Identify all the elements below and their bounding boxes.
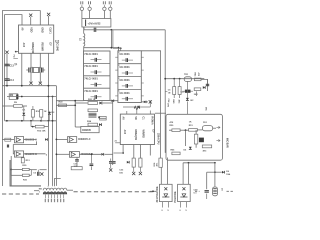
resistor RN1 <box>9 94 18 100</box>
wire <box>48 16 50 25</box>
wire <box>155 112 166 114</box>
diode D5 <box>137 106 139 109</box>
wire <box>34 190 39 192</box>
wire <box>133 145 135 159</box>
svg-text:C1: C1 <box>142 116 145 120</box>
capacitor C36 <box>199 138 204 143</box>
wire <box>2 139 14 141</box>
wire <box>30 121 32 127</box>
wire <box>150 190 156 192</box>
voltage regulator box <box>82 19 111 28</box>
wire <box>13 141 36 153</box>
wire <box>74 101 76 127</box>
ground <box>39 82 42 85</box>
diode D9 <box>45 138 47 141</box>
wire <box>2 105 13 107</box>
resistor R16 <box>159 158 162 167</box>
resistor R41 <box>178 87 181 95</box>
wire <box>123 106 137 108</box>
capacitor C41 <box>205 190 209 192</box>
diode D6 <box>127 161 129 164</box>
capacitor C31 <box>112 161 115 163</box>
diode D2 <box>48 112 51 114</box>
resistor R10 <box>31 110 34 118</box>
wire <box>10 156 12 186</box>
capacitor C22 <box>94 83 96 87</box>
wire <box>31 169 37 171</box>
svg-text:21: 21 <box>115 141 118 143</box>
wire <box>56 104 75 106</box>
ground <box>139 172 142 175</box>
svg-text:R55: R55 <box>171 149 176 151</box>
svg-text:R20: R20 <box>59 102 64 104</box>
resistor R44 <box>194 88 201 91</box>
wires in box <box>169 129 172 131</box>
svg-text:BC: BC <box>191 100 195 102</box>
wire <box>122 145 124 154</box>
capacitor C24 <box>125 58 127 62</box>
svg-text:5: 5 <box>46 154 48 156</box>
wire <box>39 72 41 82</box>
svg-text:1N: 1N <box>168 92 171 94</box>
wire <box>47 185 49 188</box>
wire <box>2 85 56 87</box>
svg-text:10N: 10N <box>166 103 168 107</box>
svg-text:C13: C13 <box>9 64 14 67</box>
svg-text:470: 470 <box>197 73 200 77</box>
svg-text:3K1 POLVCDE: 3K1 POLVCDE <box>157 186 159 202</box>
wire <box>83 27 85 30</box>
logic gate IC5A <box>14 137 23 143</box>
diode D8 <box>99 123 101 126</box>
crystal X1 <box>34 67 39 72</box>
resistor R30 <box>22 168 29 170</box>
wire <box>75 102 87 104</box>
svg-text:R40: R40 <box>172 100 175 105</box>
ground <box>29 82 32 85</box>
resistor R14 <box>132 158 135 167</box>
svg-text:4069/IC5-C: 4069/IC5-C <box>78 138 91 141</box>
node C <box>15 51 17 53</box>
diode D12 <box>186 98 189 101</box>
svg-text:74LC/-0001: 74LC/-0001 <box>84 89 98 93</box>
svg-text:Z80ACPU: Z80ACPU <box>156 133 159 145</box>
svg-text:1N4: 1N4 <box>226 173 231 176</box>
svg-text:WR/RD: WR/RD <box>142 130 145 139</box>
capacitor C13 <box>4 63 9 65</box>
capacitor C30 <box>109 161 112 163</box>
svg-text:D1: D1 <box>23 110 27 112</box>
node G <box>40 172 43 175</box>
resistor R11 <box>40 110 43 118</box>
svg-text:R9: R9 <box>14 102 18 104</box>
dashed line mid <box>74 191 153 193</box>
resistor R31 <box>22 174 29 176</box>
svg-text:R50: R50 <box>170 125 175 127</box>
svg-text:ROM/A: ROM/A <box>150 116 153 125</box>
wire <box>13 57 18 59</box>
wire <box>126 111 128 114</box>
wire <box>214 163 216 187</box>
wire <box>55 86 57 186</box>
connector J3 <box>103 7 106 10</box>
svg-text:1K: 1K <box>44 111 47 113</box>
svg-text:C30: C30 <box>181 92 186 94</box>
wire <box>201 79 208 91</box>
logic IC stack right <box>118 51 141 103</box>
wire <box>149 145 151 156</box>
wire <box>2 11 40 186</box>
wire <box>99 117 106 119</box>
wire <box>21 53 23 85</box>
capacitor C2 <box>40 68 42 73</box>
svg-text:R21 1K: R21 1K <box>88 99 96 101</box>
transistor Q2 <box>184 77 191 82</box>
svg-text:ZD1: ZD1 <box>203 122 208 124</box>
svg-text:D9: D9 <box>226 171 230 173</box>
svg-text:A15: A15 <box>22 43 25 48</box>
node D <box>5 51 8 54</box>
svg-text:D7: D7 <box>49 43 52 47</box>
svg-text:A0: A0 <box>21 27 24 31</box>
osc caps <box>5 138 11 141</box>
wire <box>30 53 32 68</box>
logic gate IC5B <box>14 151 23 157</box>
svg-text:A0: A0 <box>122 116 125 120</box>
wire <box>103 102 113 104</box>
ground <box>132 172 135 175</box>
resistor R13 <box>21 158 24 163</box>
svg-text:4069UB: 4069UB <box>82 129 91 132</box>
dashed line left <box>2 193 39 195</box>
capacitor C35 <box>206 83 209 85</box>
svg-text:3K3: 3K3 <box>177 100 179 105</box>
wire <box>115 142 120 144</box>
wire <box>39 53 41 68</box>
resistor R17 <box>71 167 82 170</box>
svg-text:5: 5 <box>168 210 170 212</box>
svg-text:74LC/-0001: 74LC/-0001 <box>84 52 98 56</box>
connector J2 <box>88 7 91 10</box>
svg-text:POLVCDE: POLVCDE <box>175 191 177 203</box>
svg-text:5: 5 <box>186 210 188 212</box>
svg-text:1C/-0001: 1C/-0001 <box>119 65 130 69</box>
wire <box>5 15 22 121</box>
node A <box>29 14 32 17</box>
transistor Q1 <box>100 116 107 120</box>
svg-text:C14: C14 <box>9 79 14 82</box>
wire <box>141 51 160 158</box>
wire <box>56 138 67 140</box>
optocoupler U4 <box>178 184 191 201</box>
svg-text:1C/-0001: 1C/-0001 <box>119 78 130 82</box>
wire <box>52 97 54 186</box>
svg-text:C33: C33 <box>119 170 124 172</box>
wire <box>140 145 142 159</box>
capacitor C9 <box>37 172 39 176</box>
svg-text:LS: LS <box>221 188 223 191</box>
capacitor C27 <box>125 97 127 101</box>
arrows EAR <box>216 126 220 128</box>
svg-text:D2: D2 <box>52 112 56 114</box>
wire <box>112 30 114 49</box>
wire <box>24 139 37 141</box>
wire <box>188 163 190 185</box>
wire <box>47 53 49 186</box>
resistor R15 <box>139 158 142 167</box>
svg-text:4069/IC5-B: 4069/IC5-B <box>24 153 37 156</box>
svg-text:2C184E: 2C184E <box>56 42 59 51</box>
capacitor C21 <box>94 70 96 74</box>
wire <box>149 111 151 115</box>
ground <box>109 168 112 171</box>
diode D3 <box>112 99 114 102</box>
resistor R54 <box>172 152 180 155</box>
svg-text:74LC/-0001: 74LC/-0001 <box>84 77 98 81</box>
diode pill D13 <box>202 126 212 131</box>
resistor R22 <box>88 109 98 112</box>
wire <box>96 29 165 31</box>
svg-text:R24: R24 <box>87 120 92 123</box>
wire <box>196 91 198 96</box>
speaker LS1 <box>213 187 218 196</box>
IC4 box <box>81 127 99 133</box>
svg-text:R12 10K: R12 10K <box>37 131 46 133</box>
wire <box>5 120 57 122</box>
wire <box>141 101 148 103</box>
capacitor C14 <box>4 78 9 80</box>
diode D15 <box>222 171 224 174</box>
svg-text:L1: L1 <box>79 38 81 41</box>
wire <box>30 72 32 82</box>
logic IC stack left <box>84 51 111 101</box>
interface box <box>166 114 222 160</box>
connector J4 <box>109 7 112 10</box>
wire <box>10 160 41 186</box>
wire dashes right <box>227 190 235 192</box>
capacitor C1 <box>28 68 30 73</box>
resistor R52 <box>194 134 197 144</box>
node B <box>47 13 50 16</box>
svg-text:A15: A15 <box>123 130 126 135</box>
diode D1 <box>22 113 25 116</box>
wire <box>83 46 85 51</box>
wire <box>75 126 81 128</box>
wire <box>7 96 56 98</box>
resistor R40 <box>173 87 176 95</box>
diode D14 <box>189 147 192 150</box>
svg-text:R51: R51 <box>189 125 194 127</box>
wire <box>183 162 215 164</box>
wire <box>110 30 112 48</box>
capacitor C17 <box>90 163 94 165</box>
IC U1 <box>19 25 54 53</box>
wire <box>30 17 32 25</box>
resistor R50 <box>172 129 180 132</box>
svg-text:TP: TP <box>14 65 17 67</box>
resistor R42 <box>194 78 201 81</box>
wire <box>6 54 8 86</box>
wire <box>112 101 114 165</box>
ground <box>149 100 152 103</box>
capacitor C20 <box>94 58 96 62</box>
svg-text:R31: R31 <box>23 180 28 182</box>
connector J1 <box>80 7 83 10</box>
wire <box>56 153 69 155</box>
svg-text:R43: R43 <box>194 73 197 78</box>
wire <box>207 171 222 173</box>
capacitor C16 <box>75 159 79 161</box>
wire <box>167 158 169 185</box>
svg-text:47K: 47K <box>170 121 174 124</box>
svg-text:MREQ/W: MREQ/W <box>31 43 34 54</box>
capacitor C34 <box>185 90 191 93</box>
svg-text:100: 100 <box>119 172 123 174</box>
node E <box>120 47 122 49</box>
svg-text:MIC: MIC <box>205 107 207 111</box>
svg-text:+5V/+9V22: +5V/+9V22 <box>88 21 102 25</box>
svg-text:VD: VD <box>134 116 137 120</box>
logic gate IC5C <box>68 137 77 143</box>
wire <box>84 48 119 51</box>
resistor R21 <box>88 102 98 105</box>
capacitor C23 <box>94 95 96 99</box>
svg-text:RD/WR: RD/WR <box>40 43 43 52</box>
IC U2 <box>120 114 154 144</box>
wire <box>149 100 151 107</box>
crystal X2 <box>134 106 139 110</box>
wire <box>105 153 113 155</box>
svg-text:1: 1 <box>39 192 41 194</box>
svg-text:D7: D7 <box>152 130 155 134</box>
resistor R20 <box>59 104 67 107</box>
optocoupler U3 <box>160 184 173 201</box>
wire <box>79 153 101 155</box>
svg-text:0: 0 <box>180 210 182 212</box>
wire <box>207 79 209 84</box>
wire <box>40 169 47 171</box>
svg-text:MREQ/W: MREQ/W <box>134 130 137 141</box>
resistor R51 <box>189 129 198 132</box>
wire <box>55 179 61 187</box>
svg-text:2K2: 2K2 <box>194 94 199 96</box>
inductor L2 <box>89 112 97 114</box>
svg-text:VDD: VDD <box>30 27 33 32</box>
diode D7 <box>99 102 102 105</box>
inductor L1 <box>83 27 85 34</box>
svg-text:1C/-0001: 1C/-0001 <box>119 52 130 56</box>
wire <box>182 163 184 185</box>
svg-text:D5: D5 <box>184 150 188 152</box>
svg-text:C9: C9 <box>33 173 37 175</box>
diode D4 <box>144 101 146 104</box>
capacitor C26 <box>125 84 127 88</box>
svg-text:3K3: 3K3 <box>203 151 208 153</box>
svg-text:1C/-0001: 1C/-0001 <box>119 91 130 95</box>
node K <box>165 91 167 93</box>
diode D11 <box>203 86 205 89</box>
keyboard connector KB1 <box>43 188 67 190</box>
resistor R9 <box>14 105 23 108</box>
svg-text:TR1: TR1 <box>184 74 189 76</box>
svg-text:MIC/EAR: MIC/EAR <box>225 138 228 148</box>
resistor R23 <box>88 123 98 126</box>
wire <box>52 185 54 187</box>
capacitor C25 <box>125 71 127 75</box>
wire <box>24 153 46 155</box>
svg-text:R30: R30 <box>22 165 27 167</box>
svg-text:CLK1: CLK1 <box>49 27 52 34</box>
svg-text:1K: 1K <box>189 122 192 124</box>
svg-text:R13: R13 <box>26 160 31 162</box>
svg-text:0.1: 0.1 <box>194 193 198 195</box>
wire <box>165 78 204 80</box>
svg-text:GND: GND <box>40 27 43 33</box>
wire <box>164 30 167 153</box>
capacitor C3 <box>93 28 95 32</box>
wire <box>110 100 118 102</box>
resistor R53 <box>202 145 211 148</box>
svg-text:0: 0 <box>162 210 164 212</box>
logic gate IC5D <box>70 152 80 158</box>
wire <box>160 167 162 184</box>
svg-text:KB: KB <box>39 189 43 191</box>
wire <box>206 172 208 189</box>
svg-text:3K1: 3K1 <box>157 162 159 167</box>
wire <box>67 189 73 191</box>
wire dashes mid <box>195 190 200 192</box>
resistor R12 <box>35 125 44 128</box>
svg-text:74LC/-0001: 74LC/-0001 <box>84 64 98 68</box>
svg-text:C5: C5 <box>168 90 171 92</box>
diode D10 <box>101 153 103 156</box>
wire <box>56 100 83 102</box>
